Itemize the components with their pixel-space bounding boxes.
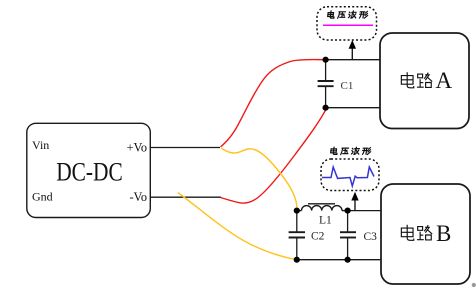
DC-DC converter box (27, 123, 151, 217)
capacitor C1 (318, 60, 334, 108)
wire C1 bottom to circuit A (326, 107, 380, 109)
waveform B ripple trace (322, 167, 374, 186)
svg-text:C2: C2 (311, 230, 325, 242)
wire C1 top to circuit A (326, 59, 380, 61)
circuit B box (381, 184, 470, 284)
wire yellow +Vo to L1 input (221, 148, 296, 207)
wire red -Vo to C1 bottom (220, 110, 325, 203)
stray mark bottom right (472, 283, 476, 287)
waveform A flat magenta trace (323, 24, 373, 26)
svg-text:A: A (436, 68, 453, 93)
svg-text:C3: C3 (364, 231, 378, 243)
svg-text:-Vo: -Vo (129, 190, 147, 204)
junction node C1 bottom (323, 105, 329, 111)
junction node bottom rail left (294, 257, 300, 263)
wire bottom rail to circuit B (297, 259, 381, 261)
label 电路B (circuit B) (401, 225, 432, 241)
circuit A box (380, 33, 469, 129)
wire +Vo stub (150, 147, 220, 149)
wire red +Vo to C1 top (221, 60, 326, 147)
waveform callout box B (321, 159, 379, 191)
label 电压波形 (voltage waveform) B (330, 147, 371, 155)
junction node L1 right (345, 208, 351, 214)
inductor L1 (297, 204, 348, 211)
svg-text:Vin: Vin (32, 138, 49, 152)
svg-text:+Vo: +Vo (127, 141, 147, 155)
svg-text:Gnd: Gnd (32, 190, 53, 204)
capacitor C3 (340, 211, 356, 260)
junction node bottom rail right (345, 257, 351, 263)
svg-text:DC-DC: DC-DC (56, 158, 123, 187)
wire -Vo stub (150, 196, 221, 198)
svg-text:B: B (436, 221, 451, 246)
wire L1 output to circuit B (348, 210, 381, 212)
wire yellow -Vo to bottom rail (178, 193, 297, 260)
capacitor C2 (289, 211, 305, 260)
junction node C1 top (323, 57, 329, 63)
svg-text:C1: C1 (341, 80, 354, 92)
label 电压波形 (voltage waveform) A (327, 11, 368, 18)
label 电路A (circuit A) (401, 72, 432, 88)
waveform callout box A (317, 7, 377, 40)
probe arrow B (351, 192, 358, 211)
junction node L1 left (294, 208, 300, 214)
svg-text:L1: L1 (319, 215, 332, 227)
probe arrow A (349, 40, 356, 60)
